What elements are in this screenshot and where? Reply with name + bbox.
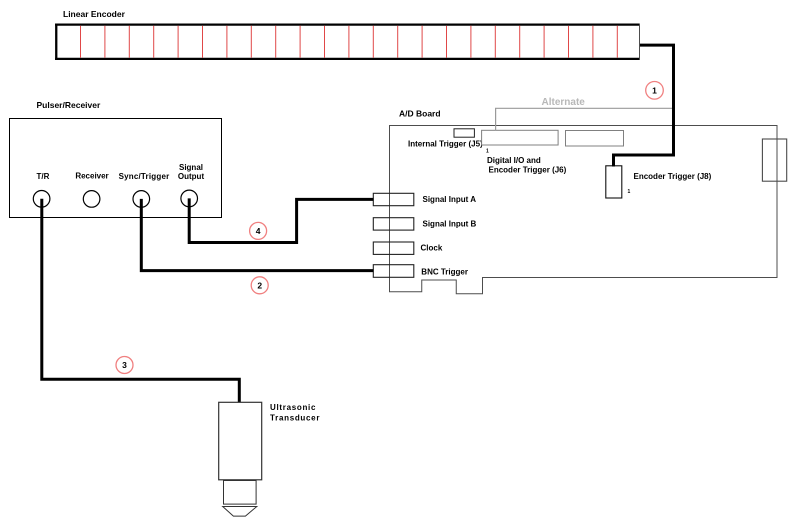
wire 3: T/R to Ultrasonic Transducer [42,199,240,402]
linear encoder graduation marks (red) [81,26,618,58]
callout circle 4 [250,222,267,239]
connector T/R [33,191,50,208]
linear encoder scale body [55,24,640,61]
connector Digital I/O J6 (left half) [482,130,558,145]
connector Digital I/O J6 (right half) [566,131,624,147]
connector Encoder Trigger (J8) [606,166,622,198]
pulser/receiver box [10,119,222,218]
callout circle 3 [116,357,133,374]
svg-text:2: 2 [257,280,262,290]
connector Internal Trigger (J5) [454,129,474,137]
svg-text:Ultrasonic: Ultrasonic [270,403,316,412]
svg-text:Signal Input A: Signal Input A [423,195,477,204]
connector Sync/Trigger [133,191,150,208]
svg-text:3: 3 [122,360,127,370]
connector Signal Output [181,190,198,207]
svg-text:1: 1 [628,189,631,195]
svg-text:Encoder Trigger (J8): Encoder Trigger (J8) [634,172,712,181]
BNC connector BNC Trigger [373,265,414,278]
BNC connector Signal Input A [373,193,414,205]
connector Receiver [83,191,100,208]
callout circle 1 [646,82,664,100]
wire 1: encoder to Encoder Trigger (J8) [614,45,674,166]
svg-text:T/R: T/R [37,172,50,181]
alternate wire (grey): J6 to encoder wire [496,108,674,130]
svg-text:1: 1 [486,149,489,155]
svg-text:1: 1 [652,85,657,95]
svg-text:Signal Input B: Signal Input B [423,220,477,229]
svg-text:Signal: Signal [179,163,203,172]
callout circle 2 [251,277,268,294]
svg-text:Digital I/O and: Digital I/O and [487,156,541,165]
svg-text:Pulser/Receiver: Pulser/Receiver [37,100,101,110]
svg-text:BNC Trigger: BNC Trigger [421,267,468,276]
ultrasonic transducer neck [224,481,257,505]
BNC connector Clock [373,242,414,254]
svg-text:Receiver: Receiver [75,172,108,181]
svg-text:Linear Encoder: Linear Encoder [63,9,126,19]
svg-text:Transducer: Transducer [270,413,320,422]
ultrasonic transducer body [219,402,262,480]
wire 4: Signal Output to Signal Input A [189,198,373,242]
ultrasonic transducer tip [223,507,257,517]
BNC connector Signal Input B [373,218,414,230]
wire 2: Sync/Trigger to BNC Trigger [141,199,373,271]
right edge connector of A/D board [762,139,786,181]
svg-text:4: 4 [256,226,261,236]
svg-text:Sync/Trigger: Sync/Trigger [119,172,170,181]
svg-text:Alternate: Alternate [542,97,586,108]
svg-text:A/D Board: A/D Board [399,109,441,119]
svg-text:Clock: Clock [421,243,443,252]
svg-text:Encoder Trigger (J6): Encoder Trigger (J6) [489,165,567,174]
svg-text:Output: Output [178,172,205,181]
A/D board outline [390,126,778,294]
svg-text:Internal Trigger (J5): Internal Trigger (J5) [408,140,483,149]
